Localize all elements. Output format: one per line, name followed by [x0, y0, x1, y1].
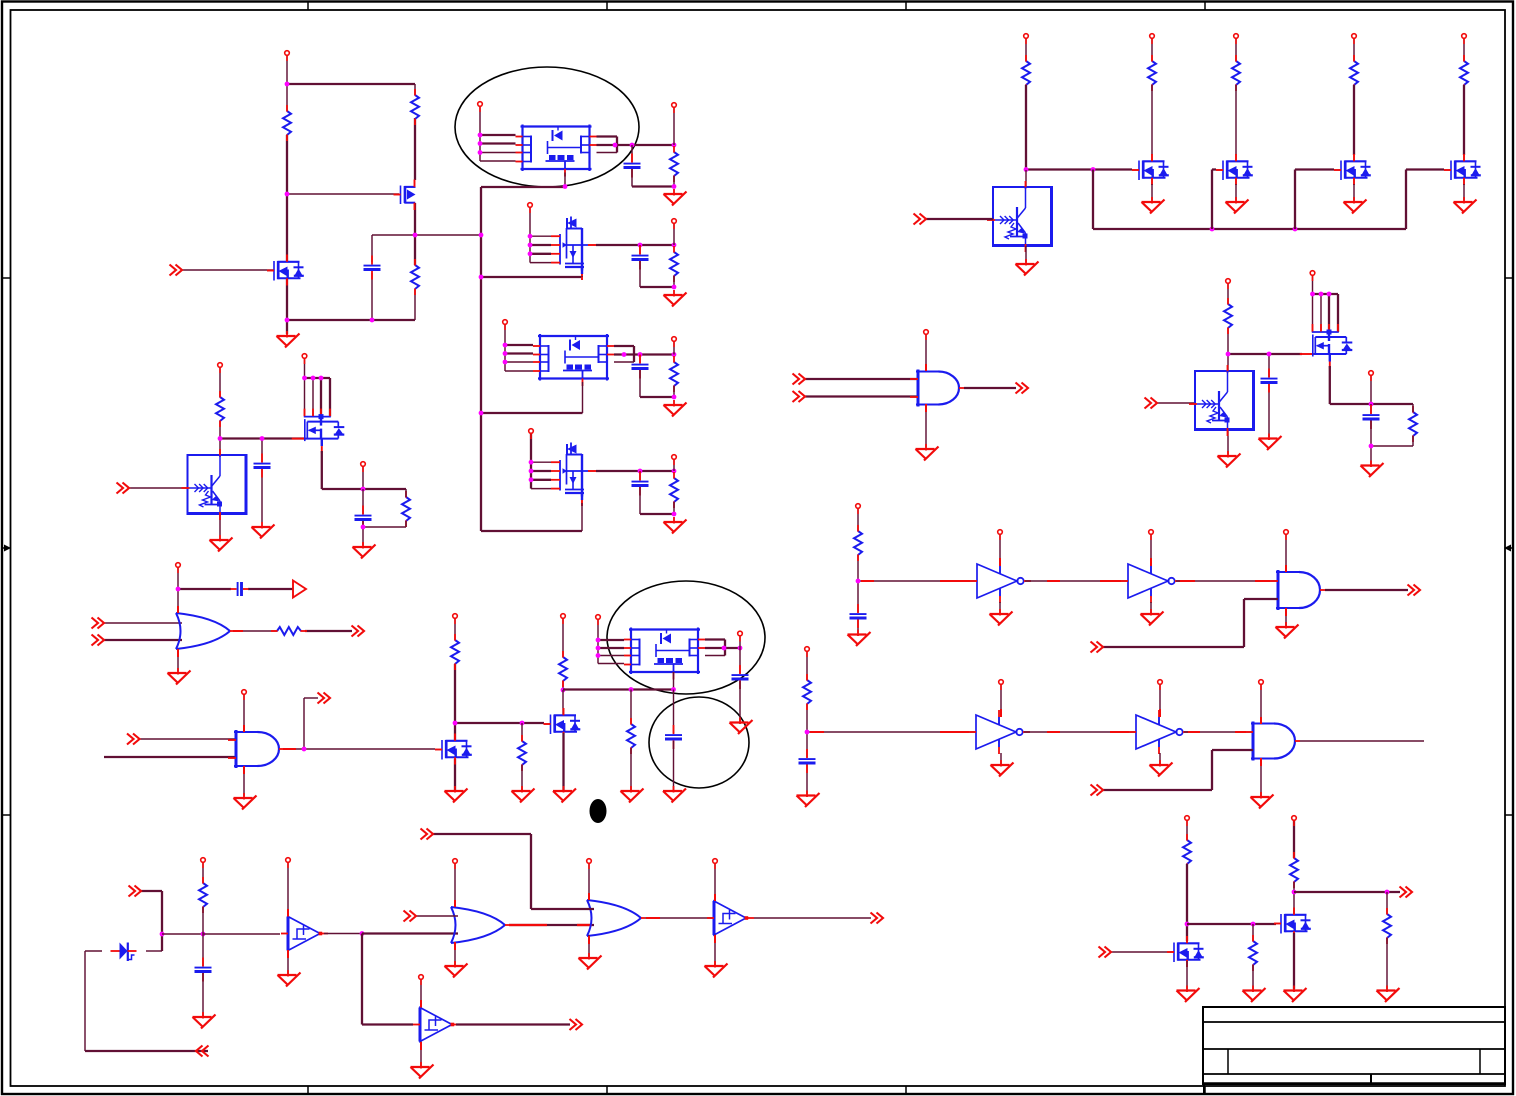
pin [999, 558, 1001, 566]
capacitor C15 [195, 958, 212, 982]
junction [856, 579, 861, 584]
wire [1412, 404, 1414, 412]
transistor [1132, 154, 1169, 185]
wire [1405, 170, 1407, 230]
wire [1300, 740, 1424, 742]
input port arrow [1099, 947, 1112, 958]
transistor Q9 [1167, 936, 1204, 967]
ground [277, 331, 300, 348]
port [1369, 371, 1374, 381]
wire [1103, 789, 1212, 791]
wire [597, 152, 618, 154]
resistor R8 [216, 391, 224, 427]
wire [673, 672, 675, 690]
junction [672, 285, 677, 290]
junction [529, 460, 534, 465]
resistor [1148, 55, 1156, 91]
wire [1212, 749, 1253, 751]
title block line [1203, 1073, 1505, 1075]
junction [361, 487, 366, 492]
junction [638, 352, 643, 357]
wire [1186, 864, 1188, 941]
wire [581, 503, 583, 531]
wire [632, 185, 674, 187]
wire [531, 470, 551, 472]
wire [1025, 580, 1128, 582]
wire [530, 262, 551, 264]
wire [598, 639, 624, 641]
pin [243, 766, 245, 774]
capacitor C5 [632, 472, 649, 496]
pin [1285, 565, 1287, 572]
wire [531, 479, 551, 481]
port [587, 859, 592, 869]
pin [1235, 731, 1246, 733]
pin [810, 731, 824, 733]
wire [806, 651, 808, 680]
transistor Q4 [551, 443, 598, 507]
junction [672, 243, 677, 248]
ground [278, 970, 301, 987]
wire [807, 731, 976, 733]
output port arrow [871, 913, 884, 924]
wire [705, 647, 740, 649]
port [672, 455, 677, 465]
border zone tick [905, 2, 907, 1095]
junction [479, 233, 484, 238]
ground [991, 760, 1014, 777]
wire [362, 527, 364, 545]
ground [353, 542, 376, 559]
title block left edge extension [1203, 1084, 1205, 1095]
wire [248, 588, 293, 590]
wire [925, 405, 927, 447]
input port arrow [421, 829, 434, 840]
AND gate U15 [1245, 722, 1300, 761]
pin [646, 917, 660, 919]
wire [220, 437, 304, 439]
wire [858, 580, 977, 582]
wire [1026, 168, 1132, 170]
pin [454, 900, 456, 907]
wire [1243, 599, 1245, 647]
wire [633, 346, 635, 362]
border center arrow left [2, 545, 11, 552]
ground [1276, 622, 1299, 639]
OR gate U4 [176, 613, 234, 649]
port [528, 203, 533, 213]
wire [1227, 328, 1229, 354]
ground [1016, 259, 1039, 276]
wire [104, 639, 182, 641]
port [1024, 34, 1029, 44]
junction [596, 653, 601, 658]
wire [420, 1042, 422, 1067]
wire [1371, 445, 1413, 447]
wire [1353, 85, 1355, 155]
junction [528, 243, 533, 248]
wire [505, 352, 533, 354]
ground [663, 786, 686, 803]
wire [1353, 38, 1355, 61]
ground [664, 517, 687, 534]
port [419, 975, 424, 985]
port [561, 614, 566, 624]
ground [916, 444, 939, 461]
wire [1406, 168, 1444, 170]
wire [178, 588, 231, 590]
port [1226, 279, 1231, 289]
pin [1159, 709, 1161, 717]
port [478, 102, 483, 112]
wire [305, 630, 352, 632]
wire [1313, 293, 1339, 295]
diode D1 [111, 943, 137, 962]
pin [1285, 608, 1287, 616]
ground [664, 189, 687, 206]
pin [177, 606, 179, 613]
wire [1093, 228, 1406, 230]
junction [1310, 292, 1315, 297]
wire [1235, 85, 1237, 155]
wire [320, 378, 322, 418]
wire [480, 134, 516, 136]
wire [1235, 38, 1237, 61]
wire [505, 361, 533, 363]
wire [805, 395, 918, 397]
ground [797, 791, 820, 808]
wire [1150, 602, 1152, 613]
pin [1000, 709, 1002, 717]
inverter U11 [1121, 559, 1182, 603]
resistor R19 [199, 877, 207, 913]
junction [1185, 922, 1190, 927]
title block divider [1370, 1074, 1372, 1084]
junction [1091, 167, 1096, 172]
wire [456, 1023, 570, 1025]
annotation circle 3 [649, 697, 749, 788]
port [738, 631, 743, 641]
wire [1227, 354, 1229, 371]
pin [1110, 731, 1129, 733]
wire [481, 412, 583, 414]
wire [219, 439, 221, 456]
port [503, 320, 508, 330]
resistor R2 [411, 89, 419, 125]
resistor R3 [411, 259, 419, 295]
resistor R5 [670, 246, 678, 282]
AND gate U5 [228, 730, 284, 768]
junction [1327, 292, 1332, 297]
annotation dot [590, 799, 607, 823]
junction [285, 82, 290, 87]
junction [1385, 890, 1390, 895]
port [1149, 530, 1154, 540]
wire [530, 433, 532, 489]
wire [414, 118, 416, 180]
ground [553, 786, 576, 803]
wire [598, 647, 624, 649]
port [1259, 680, 1264, 690]
wire [1293, 820, 1295, 858]
border center arrow right [1504, 545, 1513, 552]
port [286, 858, 291, 868]
wire [1268, 384, 1270, 437]
wire [530, 244, 551, 246]
ground [193, 1012, 216, 1029]
wire [531, 488, 551, 490]
wire [480, 160, 516, 162]
wire [673, 341, 675, 355]
wire [433, 833, 531, 835]
junction [561, 688, 566, 693]
wire [1186, 961, 1188, 989]
resistor R16 [1409, 406, 1417, 442]
wire [597, 135, 618, 137]
pin [1260, 717, 1262, 724]
wire [596, 244, 674, 246]
wire [505, 344, 533, 346]
junction [638, 243, 643, 248]
port [1292, 816, 1297, 826]
pin [861, 580, 874, 582]
wire [631, 169, 633, 187]
wire [1328, 294, 1330, 334]
wire [1227, 283, 1229, 304]
wire [531, 461, 551, 463]
port [596, 615, 601, 625]
ground [512, 786, 535, 803]
wire [371, 273, 373, 320]
wire [1312, 275, 1314, 332]
junction [1292, 890, 1297, 895]
junction [1319, 292, 1324, 297]
wire [287, 862, 289, 916]
optocoupler U7 [987, 181, 1052, 252]
wire [141, 890, 162, 892]
ground [579, 953, 602, 970]
pin [577, 924, 592, 926]
mosfet module U2 [533, 334, 614, 386]
wire [177, 567, 179, 613]
input port arrow [92, 618, 105, 629]
wire [1260, 759, 1262, 796]
wire [286, 55, 288, 111]
resistor R18 [803, 674, 811, 710]
wire [582, 382, 584, 413]
wire [639, 370, 641, 397]
resistor R17 [854, 525, 862, 561]
pin [420, 1042, 422, 1050]
junction [1226, 352, 1231, 357]
wire [639, 261, 641, 287]
wire [1176, 580, 1278, 582]
wire [202, 934, 204, 966]
wire [1000, 753, 1002, 764]
inverter U13 [969, 710, 1030, 754]
wire [304, 697, 318, 699]
title block line [1203, 1048, 1505, 1050]
pin [714, 894, 716, 901]
wire [1370, 421, 1372, 447]
wire [363, 526, 406, 528]
pin [1255, 580, 1270, 582]
buffer U17 [413, 1008, 460, 1042]
AND gate U12 [1270, 570, 1325, 610]
wire [219, 421, 221, 439]
junction [672, 469, 677, 474]
wire [329, 378, 331, 417]
junction [478, 150, 483, 155]
input port arrow [914, 214, 927, 225]
annotation ellipse 1 [455, 67, 639, 187]
capacitor C12 [1363, 405, 1380, 429]
annotation ellipse 2 [607, 581, 765, 694]
wire [362, 466, 364, 489]
wire [521, 723, 523, 741]
junction [672, 512, 677, 517]
wire [597, 144, 675, 146]
wire [598, 663, 624, 665]
wire [1235, 184, 1237, 200]
wire [714, 935, 716, 966]
wire [1463, 38, 1465, 61]
junction [672, 184, 677, 189]
port [1310, 271, 1315, 281]
inverter U14 [1129, 710, 1190, 754]
wire [322, 488, 406, 490]
transistor Q5 [292, 409, 345, 454]
wire [562, 733, 564, 790]
pin [940, 580, 970, 582]
wire [999, 602, 1001, 613]
wire [1353, 184, 1355, 200]
wire [1329, 366, 1331, 404]
port [1185, 816, 1190, 826]
title block divider [1479, 1049, 1481, 1074]
junction [1251, 922, 1256, 927]
wire [504, 324, 506, 371]
wire [805, 378, 918, 380]
port [998, 530, 1003, 540]
wire [530, 834, 532, 909]
port [361, 462, 366, 472]
wire [481, 186, 565, 188]
port [1234, 34, 1239, 44]
wire [705, 638, 725, 640]
transistor Q3 [551, 217, 598, 281]
pin [177, 649, 179, 657]
junction [260, 436, 265, 441]
port [805, 647, 810, 657]
wire [631, 145, 633, 162]
wire [161, 891, 163, 951]
wire [505, 370, 533, 372]
wire [1244, 598, 1278, 600]
wire [286, 320, 288, 334]
wire [640, 513, 674, 515]
wire [616, 137, 618, 153]
wire [414, 289, 416, 320]
wire [1294, 170, 1296, 230]
wire [754, 917, 871, 919]
wire [806, 765, 808, 795]
wire [630, 748, 632, 790]
wire [1295, 168, 1334, 170]
pin [1047, 731, 1060, 733]
mosfet module U6 [624, 628, 705, 680]
wire [203, 933, 280, 935]
ground [411, 1062, 434, 1079]
wire [562, 681, 564, 690]
wire [454, 759, 456, 790]
wire [371, 235, 373, 262]
wire [162, 933, 203, 935]
pin [243, 725, 245, 732]
ground [990, 609, 1013, 626]
wire [1024, 731, 1136, 733]
transistor Q2 [267, 255, 304, 286]
capacitor C9 [732, 665, 749, 689]
junction [638, 469, 643, 474]
title block line [1203, 1021, 1505, 1023]
junction [563, 184, 568, 189]
wire [1285, 534, 1287, 572]
pin [714, 935, 716, 943]
pin [509, 924, 547, 926]
wire [1370, 446, 1372, 464]
wire [405, 489, 407, 497]
wire [639, 471, 641, 480]
wire [1293, 882, 1295, 915]
wire [1463, 85, 1465, 155]
resistor R15 [1224, 298, 1232, 334]
wire [454, 664, 456, 740]
wire [182, 269, 274, 271]
wire [1294, 891, 1400, 893]
wire [1370, 404, 1372, 414]
transistor Q8 [1300, 324, 1353, 369]
wire [1092, 170, 1094, 230]
resistor R21 [1249, 935, 1257, 971]
wire [857, 508, 859, 531]
junction [285, 318, 290, 323]
wire [614, 345, 634, 347]
pin [233, 630, 243, 632]
junction [1369, 402, 1374, 407]
junction [738, 646, 743, 651]
wire [140, 738, 237, 740]
junction [1210, 227, 1215, 232]
wire [1151, 184, 1153, 200]
wire [454, 942, 456, 965]
wire [562, 690, 564, 715]
wire [521, 765, 523, 790]
border zone tick [2, 277, 1513, 279]
wire [1025, 246, 1027, 262]
wire [1285, 610, 1287, 626]
wire [321, 451, 323, 489]
wire [1186, 820, 1188, 840]
wire [739, 648, 741, 673]
wire [614, 361, 634, 363]
ground [252, 522, 275, 539]
wire [480, 187, 482, 531]
port [1150, 34, 1155, 44]
input port arrow [117, 483, 130, 494]
junction [453, 721, 458, 726]
pin [1188, 731, 1200, 733]
